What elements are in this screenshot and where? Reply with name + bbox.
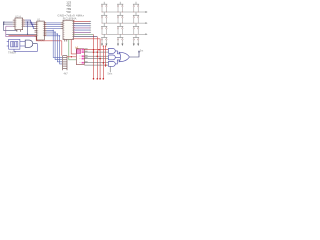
svg-text:5ms: 5ms (108, 73, 113, 76)
svg-text:*0#: *0# (66, 10, 71, 14)
svg-text:TIMER: TIMER (8, 50, 16, 54)
svg-text:4k7: 4k7 (64, 72, 69, 76)
svg-text:5m: 5m (140, 50, 143, 53)
